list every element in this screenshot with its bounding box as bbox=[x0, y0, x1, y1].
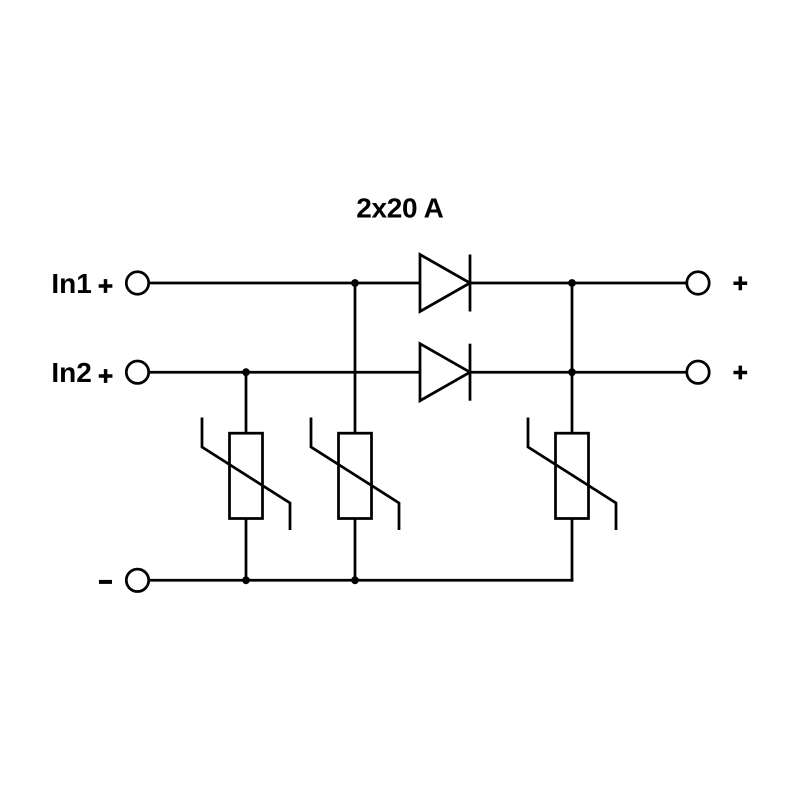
junction node minus rail / RU2 bbox=[351, 576, 359, 584]
wire stem varistor RU1 bottom bbox=[245, 519, 248, 581]
varistor RU3 diagonal stroke bbox=[528, 418, 616, 531]
label minus bbox=[99, 580, 112, 584]
wire In2 rail left (terminal to diode D2 anode) bbox=[150, 371, 420, 374]
junction node minus rail / RU1 bbox=[242, 576, 250, 584]
wire stem varistor RU1 top (In2 rail to RU1) bbox=[245, 372, 248, 433]
diode D1 cathode bar bbox=[469, 255, 472, 312]
wire stem varistor RU2 top (In1 rail to RU2, crossing In2 rail) bbox=[354, 283, 357, 433]
diode D2 triangle bbox=[420, 344, 470, 401]
terminal In1 bbox=[126, 272, 148, 294]
varistor RU1 body bbox=[230, 433, 263, 518]
label + (In2) bbox=[99, 369, 113, 383]
label + (output 1) bbox=[733, 276, 747, 290]
varistor RU1 diagonal stroke bbox=[202, 418, 290, 531]
wire stem varistor RU3 bottom (to minus rail corner) bbox=[571, 519, 574, 582]
terminal In2 bbox=[126, 361, 148, 383]
wire In1 rail left (terminal to diode D1 anode) bbox=[150, 282, 420, 285]
wire minus rail bbox=[150, 579, 574, 582]
junction node In2 / RU3 stem bbox=[568, 368, 576, 376]
wire In1 rail right (D1 cathode to output terminal) bbox=[470, 282, 686, 285]
diode D1 triangle bbox=[420, 255, 470, 312]
junction node In2 / RU1 stem bbox=[242, 368, 250, 376]
label + (output 2) bbox=[733, 366, 747, 380]
junction node In1 / RU2 stem bbox=[351, 279, 359, 287]
varistor RU2 diagonal stroke bbox=[311, 418, 399, 531]
wire stem varistor RU2 bottom bbox=[354, 519, 357, 581]
terminal output 2 bbox=[687, 361, 709, 383]
terminal output 1 bbox=[687, 272, 709, 294]
svg-text:In2: In2 bbox=[51, 357, 91, 388]
svg-text:2x20 A: 2x20 A bbox=[356, 193, 443, 224]
terminal minus bbox=[126, 569, 148, 591]
diode D2 cathode bar bbox=[469, 344, 472, 401]
svg-text:In1: In1 bbox=[51, 268, 91, 299]
junction node In1 / RU3 stem bbox=[568, 279, 576, 287]
wire In2 rail right (D2 cathode to output terminal) bbox=[470, 371, 686, 374]
wire stem varistor RU3 top (In1 rail to RU3) bbox=[571, 283, 574, 433]
label + (In1) bbox=[99, 279, 113, 293]
varistor RU3 body bbox=[556, 433, 589, 518]
varistor RU2 body bbox=[339, 433, 372, 518]
